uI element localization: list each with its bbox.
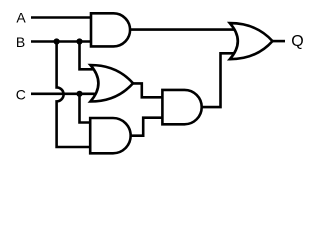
wire OR G5 output to Q (272, 40, 285, 43)
OR gate G5 (output, drives Q) (230, 23, 273, 59)
wire C input to OR gate G2 (31, 93, 96, 96)
wire OR G2 output to AND gate G3 upper input (133, 83, 164, 97)
wire A input to AND gate G1 (31, 16, 92, 19)
OR gate G2 (inputs B,C) (90, 65, 133, 102)
wire B input to AND gate G1 (31, 40, 92, 43)
AND gate G1 (inputs A,B) (91, 13, 130, 46)
junction dot B1 (54, 38, 60, 44)
wire AND G4 output to AND gate G3 lower input (131, 118, 165, 136)
svg-text:Q: Q (291, 33, 303, 50)
svg-text:C: C (16, 86, 26, 102)
junction dot C1 (76, 91, 82, 97)
svg-text:B: B (16, 34, 25, 50)
wire branch from node B2 down to OR gate G2 top input (80, 42, 96, 70)
AND gate G4 (bottom, inputs B,C) (90, 118, 130, 153)
wire branch from node B1 down to AND gate G4 lower input (hops over C wire) (57, 42, 92, 148)
svg-text:A: A (16, 10, 26, 26)
wire branch from node C1 down to AND gate G4 upper input (80, 94, 93, 123)
wire AND G1 output to OR gate G5 top input (129, 28, 235, 31)
AND gate G3 (middle right) (162, 90, 201, 124)
junction dot B2 (76, 38, 82, 44)
wire AND G3 output to OR gate G5 bottom input (202, 53, 236, 107)
